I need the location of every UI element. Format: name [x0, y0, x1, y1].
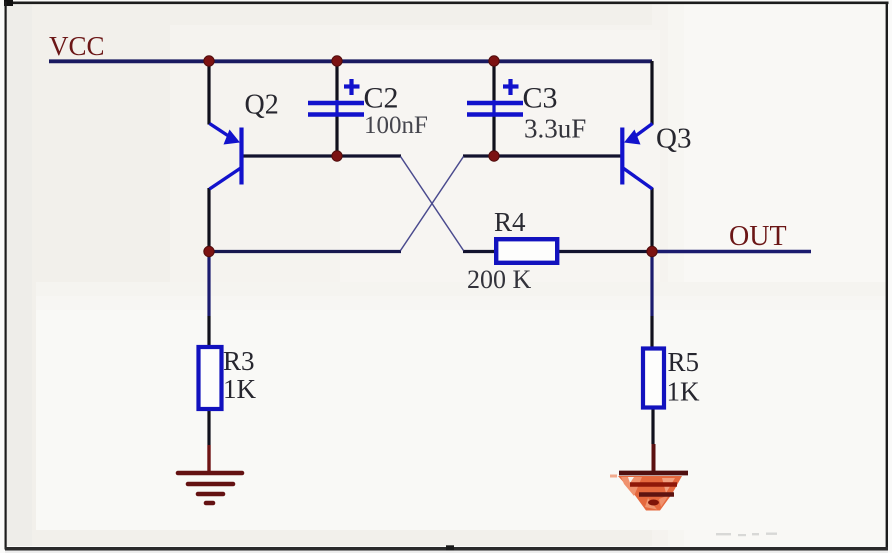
svg-text:C2: C2 — [364, 82, 399, 115]
svg-text:C3: C3 — [523, 82, 558, 115]
svg-text:R5: R5 — [668, 347, 700, 377]
svg-text:R3: R3 — [223, 346, 255, 376]
svg-text:1K: 1K — [667, 377, 701, 407]
svg-text:Q3: Q3 — [656, 123, 691, 155]
svg-text:VCC: VCC — [49, 31, 105, 61]
svg-text:R4: R4 — [494, 207, 526, 237]
svg-text:Q2: Q2 — [245, 90, 279, 121]
svg-text:3.3uF: 3.3uF — [524, 114, 586, 144]
svg-text:OUT: OUT — [729, 221, 787, 252]
svg-text:1K: 1K — [223, 374, 257, 404]
svg-text:200 K: 200 K — [467, 265, 532, 294]
svg-text:100nF: 100nF — [364, 112, 428, 139]
